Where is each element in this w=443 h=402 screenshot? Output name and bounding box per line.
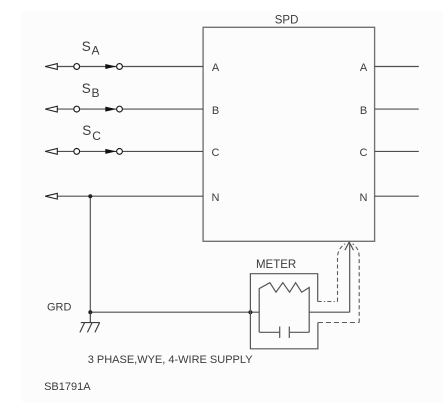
svg-text:GRD: GRD — [47, 302, 72, 314]
svg-text:S: S — [82, 81, 91, 96]
svg-text:S: S — [82, 39, 91, 54]
svg-text:N: N — [360, 192, 368, 204]
svg-text:N: N — [212, 192, 220, 204]
svg-text:SPD: SPD — [275, 15, 299, 27]
svg-text:C: C — [360, 147, 368, 159]
svg-text:METER: METER — [256, 259, 296, 271]
svg-text:C: C — [212, 147, 220, 159]
svg-text:B: B — [92, 86, 100, 100]
svg-text:C: C — [92, 129, 101, 143]
svg-text:A: A — [92, 44, 100, 58]
svg-text:3 PHASE,WYE, 4-WIRE SUPPLY: 3 PHASE,WYE, 4-WIRE SUPPLY — [88, 354, 254, 366]
svg-text:A: A — [360, 62, 368, 74]
svg-text:SB1791A: SB1791A — [44, 381, 91, 393]
svg-text:B: B — [360, 105, 367, 117]
svg-text:S: S — [82, 123, 91, 138]
svg-text:A: A — [212, 62, 220, 74]
svg-text:B: B — [212, 105, 219, 117]
